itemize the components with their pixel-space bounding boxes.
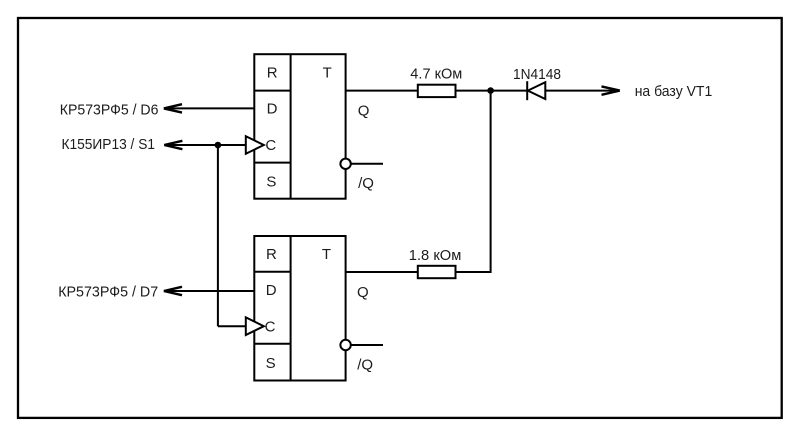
diode VD1 triangle: [528, 82, 546, 99]
diode VD1 cathode bar: [526, 81, 528, 100]
DD2 inversion bubble on /Q: [340, 340, 350, 350]
svg-text:Q: Q: [358, 102, 370, 119]
svg-text:D: D: [266, 282, 277, 299]
wire DD2 C input: [218, 325, 246, 327]
svg-text:на базу VT1: на базу VT1: [635, 83, 713, 100]
wire DD2 /Q stub: [351, 344, 383, 346]
svg-text:S: S: [266, 355, 276, 372]
svg-text:C: C: [265, 137, 276, 154]
svg-text:S: S: [266, 173, 276, 190]
wire DD1 Q output to R1: [346, 90, 418, 92]
wire VD1 to output arrow: [545, 90, 619, 92]
svg-text:R: R: [266, 246, 277, 263]
DD1 dynamic clock input triangle: [246, 136, 264, 154]
svg-text:D: D: [267, 101, 278, 118]
svg-text:T: T: [322, 246, 331, 263]
svg-text:КР573РФ5 / D7: КР573РФ5 / D7: [58, 283, 158, 300]
svg-text:К155ИР13 / S1: К155ИР13 / S1: [62, 136, 156, 153]
svg-text:R: R: [267, 64, 278, 81]
DD1 inversion bubble on /Q: [340, 159, 350, 169]
arrowhead to КР573РФ5/D7: [164, 287, 182, 295]
wire R1 to diode: [456, 90, 528, 92]
svg-text:КР573РФ5 / D6: КР573РФ5 / D6: [60, 101, 159, 118]
svg-text:/Q: /Q: [357, 357, 373, 374]
svg-text:4.7 кОм: 4.7 кОм: [410, 66, 462, 83]
wire clock bus vertical: [217, 145, 219, 326]
svg-text:/Q: /Q: [358, 175, 374, 192]
flip-flop DD2 (bottom T-trigger) body: [254, 236, 345, 381]
svg-text:Q: Q: [357, 284, 369, 301]
svg-text:T: T: [323, 65, 332, 82]
svg-text:C: C: [265, 319, 276, 336]
DD2 dynamic clock input triangle: [246, 317, 264, 335]
junction node at R1/R2/diode: [487, 87, 494, 94]
resistor R2 body: [418, 266, 456, 278]
svg-text:1N4148: 1N4148: [513, 66, 561, 83]
resistor R1 body: [418, 85, 456, 97]
wire DD1 D input: [165, 107, 255, 109]
arrowhead to К155ИР13/S1: [164, 141, 182, 149]
wire DD1 /Q stub: [351, 163, 383, 165]
wire junction down to R2: [456, 91, 491, 272]
arrowhead to base VT1: [602, 86, 620, 94]
junction on clock net: [215, 142, 222, 149]
wire DD2 Q output to R2: [346, 271, 418, 273]
arrowhead to КР573РФ5/D6: [164, 104, 182, 112]
wire DD2 D input: [165, 290, 255, 292]
flip-flop DD1 (top T-trigger) body: [254, 54, 345, 199]
svg-text:1.8 кОм: 1.8 кОм: [409, 247, 462, 264]
wire DD1 C input: [165, 144, 246, 146]
